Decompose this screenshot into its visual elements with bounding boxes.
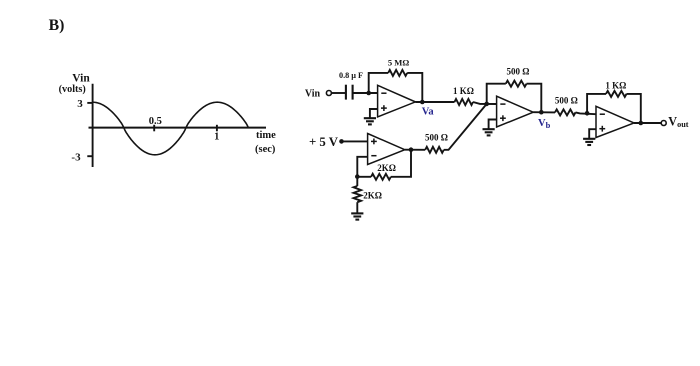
op-amp U3 [368, 134, 405, 165]
wire R2 to U2 inverting input node [473, 102, 497, 104]
wire node up to resistor R8 [587, 94, 606, 113]
svg-text:-3: -3 [71, 151, 81, 163]
tick 1 [216, 125, 218, 132]
wire R4 to ground [356, 202, 358, 213]
junction node: C1 / R1 feedback / U1 minus [366, 91, 371, 96]
op-amp U4 [596, 106, 634, 137]
wire U4 output to Vout terminal [634, 122, 661, 124]
resistor R7 500 ohm (series Vb to U4) [555, 109, 576, 115]
wire U2 plus input to ground [489, 120, 497, 129]
tick -3 [87, 155, 92, 157]
svg-text:Vin: Vin [72, 73, 90, 85]
junction node: U3 minus / R3 / R4 [355, 174, 360, 179]
junction node: U2 output / feedback (Vb) [539, 110, 544, 115]
output terminal Vout (open circle) [661, 121, 666, 126]
op-amp U2 [497, 96, 534, 127]
svg-text:Vb: Vb [538, 118, 551, 130]
wire R3 up to U3 output [391, 150, 411, 177]
svg-text:Va: Va [422, 106, 435, 117]
svg-text:+ 5 V: + 5 V [309, 135, 339, 149]
resistor R6 500 ohm (feedback U2) [506, 81, 527, 87]
tick 0.5 [153, 125, 155, 132]
graph x-axis (time) [89, 127, 267, 129]
wire U3 minus input down to node [357, 157, 367, 177]
tick +3 [87, 102, 92, 104]
wire capacitor to U1 inverting input [353, 92, 378, 94]
svg-text:(volts): (volts) [59, 84, 86, 95]
wire node up to resistor R6 [487, 84, 506, 104]
svg-text:B): B) [49, 17, 65, 34]
junction node: U1 output / feedback [420, 100, 425, 105]
svg-text:500 Ω: 500 Ω [555, 95, 578, 105]
svg-text:500 Ω: 500 Ω [425, 132, 448, 142]
wire U1 output (Va) to R2 [415, 101, 454, 103]
svg-text:2KΩ: 2KΩ [363, 191, 382, 201]
svg-text:500 Ω: 500 Ω [507, 67, 530, 77]
wire U2 output (Vb) to R7 [533, 111, 555, 113]
resistor R1 5 Mohm (feedback U1) [388, 70, 407, 76]
wire node to R3 [357, 176, 371, 178]
svg-text:1 KΩ: 1 KΩ [605, 80, 626, 90]
resistor R2 1 Kohm (series Va to U2) [455, 99, 474, 105]
input terminal Vin (open circle) [326, 91, 331, 96]
junction node: R2 / R5 / U2 minus / R6 feedback [484, 102, 489, 107]
wire R1 to U1 output [407, 73, 422, 102]
wire U3 output to R5 [405, 149, 425, 151]
wire node down to R4 [356, 177, 358, 186]
svg-text:0.5: 0.5 [149, 116, 162, 127]
capacitor C1 0.8uF [346, 85, 353, 100]
resistor R3 2 Kohm (feedback U3) [371, 174, 391, 180]
wire R8 to U4 output [627, 94, 641, 123]
graph y-axis [92, 84, 94, 167]
svg-text:time: time [256, 130, 276, 141]
svg-text:1 KΩ: 1 KΩ [453, 86, 474, 96]
resistor R4 2 Kohm (U3 minus to ground) [354, 186, 362, 202]
ground at U2 plus input [483, 129, 495, 135]
wire +5V to U3 plus input [342, 140, 368, 142]
diagonal wire R5 to U2 input node [444, 104, 487, 150]
resistor R5 500 ohm (series U3 out) [425, 147, 444, 153]
svg-text:Vin: Vin [305, 89, 321, 100]
wire U4 plus input to ground [589, 129, 596, 138]
wire R7 to U4 inverting input [576, 112, 597, 114]
junction node: R7 / U4 minus / R8 feedback [585, 111, 590, 116]
wire U1 plus input to ground [370, 109, 378, 118]
svg-text:2KΩ: 2KΩ [377, 163, 396, 173]
svg-text:1: 1 [214, 132, 219, 143]
ground at U1 plus input [364, 118, 376, 124]
Vin sine waveform curve [93, 102, 249, 155]
wire node up to resistor R1 [369, 73, 389, 93]
terminal dot +5V [339, 139, 344, 144]
svg-text:0.8 µ F: 0.8 µ F [339, 71, 363, 80]
resistor R8 1 Kohm (feedback U4) [606, 91, 627, 97]
junction node: U4 output / feedback [639, 121, 644, 126]
op-amp U1 [378, 85, 416, 117]
junction node: U3 output / feedback [409, 147, 414, 152]
svg-text:3: 3 [77, 98, 83, 110]
svg-text:(sec): (sec) [255, 144, 276, 155]
ground at U4 plus input [583, 139, 595, 145]
svg-text:5 MΩ: 5 MΩ [388, 58, 410, 68]
wire R6 to U2 output [527, 84, 542, 113]
wire Vin terminal to capacitor C1 [331, 92, 346, 94]
ground below R4 [351, 213, 363, 219]
